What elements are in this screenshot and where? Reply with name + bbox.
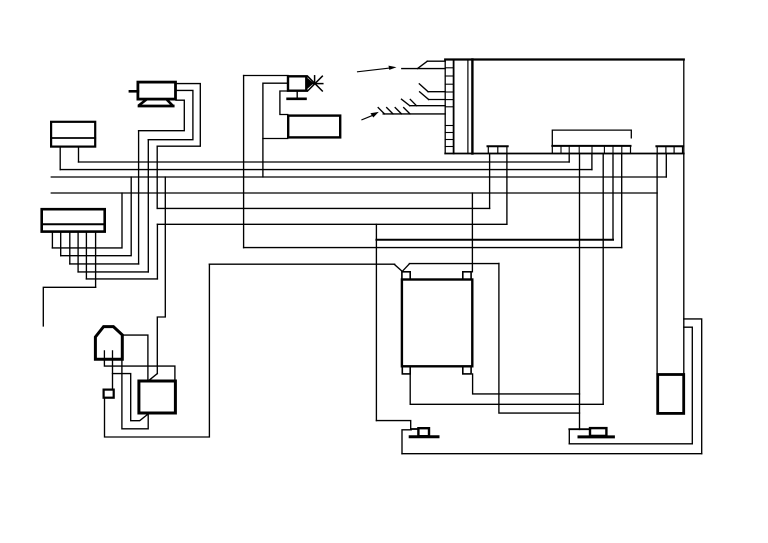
box B6 (right small box)	[658, 375, 684, 414]
rail B bottom	[569, 443, 692, 445]
wire riser x657 from J3 to box B6	[656, 154, 658, 375]
clamp symbol G1 bar	[410, 435, 438, 438]
B3 pin3 stub	[69, 232, 71, 264]
B3 pin4 stub	[77, 232, 79, 272]
relay K1 (left box)	[51, 122, 95, 147]
bus L3	[51, 176, 666, 178]
wire H1 pin1 under dome to B4 top-right	[104, 359, 174, 381]
B3 pin2 stub	[60, 232, 62, 256]
motor M1 mounting stand	[139, 100, 173, 106]
wire riser x472 from bus L4 to transformer pin	[471, 193, 473, 272]
transformer top plate wire	[376, 239, 613, 241]
B3 pin5 riser to bus L7	[156, 224, 158, 279]
clamp G1 square	[418, 428, 429, 436]
bracket outline of J2 (open rectangle with hook)	[552, 130, 631, 146]
lamp E1 ground bar	[288, 98, 306, 101]
funnel right diagonal into T1 pin	[403, 264, 410, 271]
lamp E1 star flash	[308, 76, 323, 91]
wire K1 pin1 to bus L2	[59, 147, 61, 170]
H1 inner pin 1	[103, 351, 105, 359]
T1 pin square bottom-right	[463, 366, 471, 374]
bus L3 riser to J3	[665, 154, 667, 178]
bus L2 riser to J2	[591, 154, 593, 170]
bus L6	[157, 207, 489, 209]
wire vertical motor1 to bus L6	[156, 146, 158, 208]
wire W2 into ladder	[419, 84, 445, 92]
wire H1 pin2 to square S5 and branch	[112, 359, 114, 389]
wire branch to module B2 bottom	[263, 138, 288, 140]
wire from J2 tooth 613 to plate	[612, 154, 614, 240]
clamp G2 square	[590, 428, 606, 436]
wire from motor M1 terminal 2 (middle loop)	[148, 90, 193, 139]
connector strip J2 under U1 (teeth row)	[552, 146, 630, 154]
wire riser x376 from bus L7 to clamp1 feed	[375, 224, 377, 420]
wire clamp G2 to rail B	[568, 429, 570, 444]
wire funnel left at y264	[209, 263, 394, 265]
wire from motor M1 stand (inner loop)	[139, 100, 185, 131]
bus L6 riser to J1	[489, 154, 491, 209]
wire T1 bottom-right pin across to clamp2 drop	[473, 374, 580, 394]
wire K1 pin2 to bus L1	[78, 147, 80, 162]
B3 pin5 stub	[85, 232, 87, 279]
connector tab J1 under U1 (two cells)	[488, 146, 508, 153]
wire funnel right at y263.4	[409, 263, 499, 265]
B3 pin2 line to riser	[61, 177, 132, 256]
B3 pin6 stub	[95, 232, 97, 288]
wire from J2 tooth 604 down	[602, 154, 604, 405]
wire staple B from right edge branch	[684, 327, 693, 444]
wire lamp E1 bottom corner to module B2	[280, 91, 288, 115]
wire U1 right edge down and staple A	[683, 154, 685, 375]
arrow A1 pointing to U1 inlet	[358, 66, 397, 72]
bus L8	[244, 247, 622, 249]
ECU main box U1	[445, 60, 684, 154]
dome sensor H1	[95, 327, 122, 360]
wire clamp G1 to rail A	[402, 430, 411, 454]
bus L7	[157, 223, 507, 225]
indicator lamp E1	[288, 76, 306, 90]
inner thick partition of U1	[471, 60, 473, 154]
square S5	[104, 390, 114, 398]
connector ladder strip on U1 left edge	[445, 60, 453, 154]
wire H1 right side to box B4	[122, 335, 148, 381]
clamp G1 ledge	[411, 428, 419, 430]
T1 pin square top-right	[463, 272, 471, 280]
motor M1	[130, 82, 176, 99]
transformer T1 body	[402, 280, 472, 367]
wire from motor M1 terminal 1 (outer loop)	[157, 84, 200, 147]
wire H1 bottom-right corner down	[122, 359, 148, 429]
wire branch from pin2 to B4 bottom-left	[113, 374, 149, 421]
connector tab J3 under U1 right (three cells)	[656, 146, 683, 153]
mid wire x209 loop (square S5 feed)	[105, 264, 210, 437]
bus L4	[51, 192, 657, 194]
B3 pin3 line	[70, 263, 139, 265]
rail A bottom	[402, 453, 702, 455]
B3 pin5 line	[86, 278, 157, 280]
wire from J2 tooth 579 down to clamp2	[579, 154, 581, 430]
arrow A2 pointing to wire W5	[362, 112, 379, 120]
wire x499 down to clamp2 feed	[499, 263, 580, 413]
box B4 (thick square)	[139, 381, 176, 413]
wire bus L3 drop at x165	[157, 177, 165, 374]
wire W4 into ladder with hatch tick	[402, 99, 446, 106]
funnel left diagonal into T1 pin	[394, 264, 402, 271]
B3 pin4 line	[78, 271, 148, 273]
wire lamp E1 left pin down to bus L3	[263, 83, 288, 177]
B3 pin6 line dangling left	[43, 287, 95, 326]
wire vertical motor3 to pin3 line	[138, 131, 140, 264]
bus L1 riser to J2	[568, 154, 570, 163]
wire lamp E1 down to bus L8	[243, 76, 245, 248]
inner partition line of U1	[467, 60, 469, 154]
B3 pin1 stub	[51, 232, 53, 248]
T1 pin square top-left	[402, 272, 410, 280]
bus L8 riser to J2	[621, 154, 623, 248]
H1 inner pin 2	[112, 351, 114, 359]
wire W1 into ladder (with branch ramp)	[402, 61, 445, 68]
control unit B3 (left, with pin fan)	[42, 209, 105, 231]
wire W5 into ladder with hatch ticks	[378, 108, 445, 114]
wire clamp1 feed horizontal	[376, 421, 410, 429]
wire W3 into ladder	[420, 92, 446, 100]
module B2	[288, 116, 340, 138]
bus L2	[60, 169, 592, 171]
clamp symbol G2 bar	[579, 435, 613, 438]
wire T1 bottom-left pin to J2 tooth 604	[410, 374, 603, 404]
bus L1	[79, 161, 570, 163]
B3 pin1 line to riser	[52, 193, 122, 248]
clamp G2 ledge	[569, 428, 590, 430]
lamp E1 arrow cone	[307, 78, 314, 90]
lamp E1 ground stem	[296, 91, 298, 99]
wire diagonal into box B4 top-left	[148, 374, 157, 381]
bus L7 riser to J1 right cell	[506, 154, 508, 225]
T1 pin square bottom-left	[402, 366, 410, 374]
wire lamp E1 top feed	[244, 75, 288, 77]
wire vertical motor2 to pin4 line	[147, 140, 149, 272]
